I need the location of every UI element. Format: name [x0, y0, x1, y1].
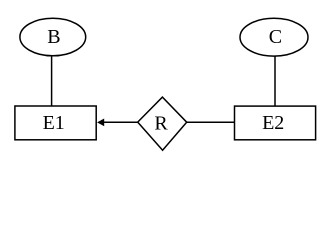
svg-text:R: R [154, 112, 168, 134]
entity rectangle E2 [235, 106, 316, 140]
svg-text:E2: E2 [262, 112, 284, 134]
wire B to E1 [51, 56, 53, 106]
attribute ellipse C [240, 18, 308, 56]
attribute ellipse B [20, 18, 86, 56]
wire R to E1 with arrow [104, 121, 138, 123]
wire R to E2 [187, 121, 235, 123]
svg-text:B: B [47, 26, 60, 48]
relationship diamond R [138, 97, 187, 150]
arrowhead at E1 [97, 119, 104, 127]
svg-text:E1: E1 [43, 112, 65, 134]
wire C to E2 [274, 56, 276, 106]
svg-text:C: C [269, 26, 282, 48]
entity rectangle E1 [15, 106, 96, 140]
